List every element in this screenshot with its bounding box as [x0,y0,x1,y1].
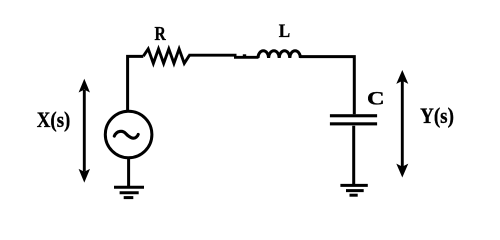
wire: top-left corner down to source [128,56,144,110]
svg-text:L: L [279,20,290,41]
ac source circle [105,111,152,158]
arrow Y(s) double-headed [396,70,408,178]
wire: source to ground [127,158,130,187]
wire: junction to inductor (offset overlap) [234,56,259,59]
inductor L [258,51,300,58]
ground (under capacitor) [340,185,367,195]
arrow X(s) double-headed [79,79,90,183]
ground (under source) [114,187,144,197]
capacitor C top plate [330,114,377,117]
capacitor C bottom plate [330,122,377,125]
resistor R [143,49,189,64]
wire: resistor to junction [189,54,237,57]
svg-text:R: R [154,22,166,44]
junction tick [243,54,246,57]
ac source sine [114,131,138,138]
wire: inductor to top-right corner, drop to capacitor [300,57,354,115]
svg-text:X(s): X(s) [37,109,71,133]
svg-text:Y(s): Y(s) [420,104,454,129]
wire: capacitor to ground [352,126,355,186]
svg-text:C: C [367,88,385,109]
